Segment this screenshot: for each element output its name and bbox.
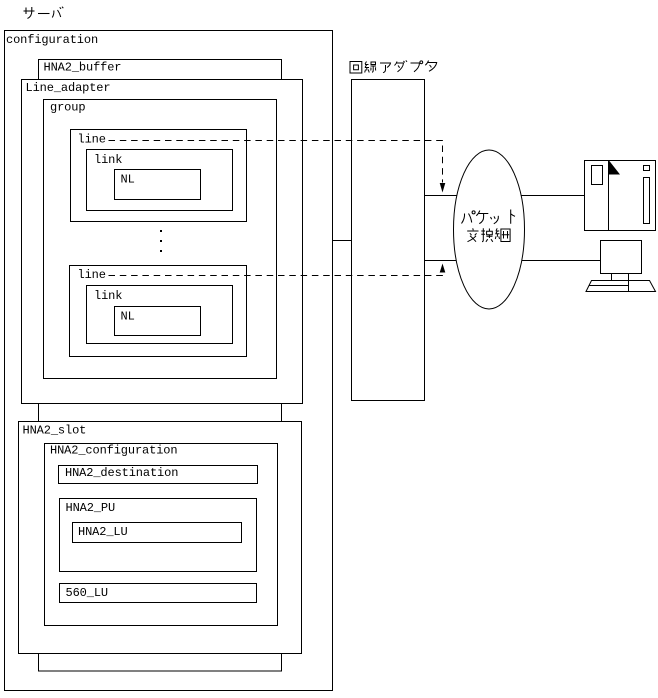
dots between line boxes (160, 230, 162, 252)
svg-text:NL: NL (121, 310, 135, 324)
box NL 2 (115, 307, 201, 336)
box HNA2_buffer (39, 60, 282, 672)
kanji kou (467, 228, 478, 241)
svg-text:HNA2_buffer: HNA2_buffer (44, 61, 122, 75)
box Line_adapter (22, 80, 303, 404)
box link 2 (87, 286, 233, 344)
kana label server (saabaa) (24, 7, 64, 19)
kana ke (476, 211, 488, 224)
box HNA2_LU (73, 523, 242, 543)
box link 1 (87, 150, 233, 211)
box HNA2_destination (59, 466, 258, 484)
box 560_LU (60, 584, 257, 603)
svg-text:configuration: configuration (6, 33, 98, 47)
kanji label kaisen adapter (350, 60, 437, 73)
box configuration (5, 31, 333, 691)
svg-text:line: line (78, 133, 106, 147)
kanji kan (481, 228, 493, 242)
kana label packet (462, 210, 516, 224)
svg-text:HNA2_slot: HNA2_slot (23, 424, 87, 438)
kana da (395, 60, 408, 71)
svg-text:line: line (78, 268, 106, 282)
svg-text:HNA2_LU: HNA2_LU (78, 525, 128, 539)
kana ba (52, 7, 63, 18)
box HNA2_PU (60, 499, 257, 572)
box HNA2_configuration (45, 444, 278, 626)
svg-text:group: group (50, 101, 85, 115)
arrow down to upper wire (440, 183, 446, 193)
kana pa (462, 214, 472, 224)
kanji mou (495, 228, 510, 241)
wire adapter to network upper (425, 195, 585, 197)
svg-text:560_LU: 560_LU (66, 586, 109, 600)
box NL 1 (115, 170, 201, 200)
kana sa (24, 7, 35, 19)
kana long dash (38, 13, 50, 15)
svg-text:link: link (94, 153, 122, 167)
workstation keyboard (586, 281, 656, 292)
svg-text:HNA2_destination: HNA2_destination (65, 466, 178, 480)
kana to (511, 210, 515, 224)
svg-text:Line_adapter: Line_adapter (26, 81, 111, 95)
svg-text:HNA2_PU: HNA2_PU (66, 501, 116, 515)
svg-text:HNA2_configuration: HNA2_configuration (50, 444, 177, 458)
kana a (380, 63, 391, 73)
workstation monitor icon (601, 241, 642, 292)
svg-text:link: link (94, 289, 122, 303)
ellipse packet switching network (454, 150, 525, 309)
kanji sen (365, 62, 376, 73)
svg-text:NL: NL (121, 173, 135, 187)
wire adapter to network lower (425, 260, 601, 262)
kana pu (411, 63, 420, 72)
wire configuration to adapter (333, 240, 352, 242)
arrow up to lower wire (440, 264, 446, 273)
box line 1 (71, 130, 247, 222)
kanji label switching network (467, 228, 510, 242)
box line-adapter unit (kaisen adapter) (352, 80, 425, 401)
dashed wire line1 to adapter (109, 141, 443, 276)
kana ta (425, 61, 436, 72)
box group (44, 100, 277, 379)
kanji kai (350, 62, 362, 74)
box HNA2_slot (19, 422, 302, 654)
server tower icon (585, 161, 656, 231)
kana small tsu (491, 216, 499, 224)
server tower flag triangle (609, 161, 620, 175)
box line 2 (70, 266, 247, 357)
